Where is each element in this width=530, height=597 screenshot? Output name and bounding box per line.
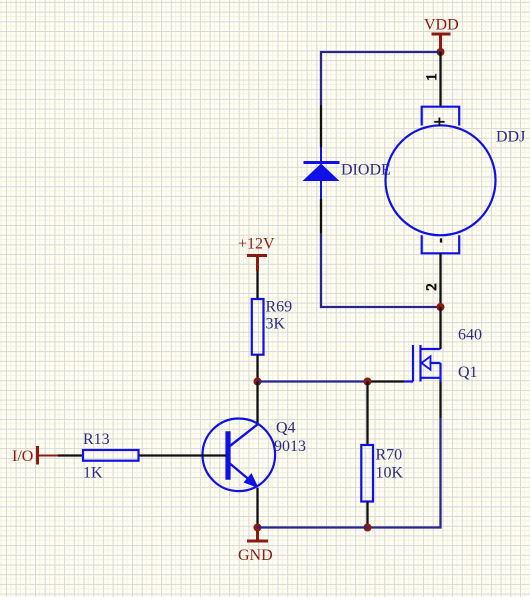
junction gate node R70 (364, 378, 372, 386)
power +12V (238, 236, 275, 272)
svg-text:3K: 3K (266, 316, 286, 333)
wire source pin (black) (439, 382, 441, 419)
diode DIODE (303, 147, 340, 199)
wire base pin (black) (139, 454, 227, 456)
ground GND (238, 528, 273, 565)
svg-text:DDJ: DDJ (496, 129, 525, 146)
transistor Q4 (203, 419, 276, 492)
wire gate pin (black) (368, 380, 405, 382)
resistor R69 (252, 299, 264, 355)
wire VDD to diode top (321, 52, 441, 105)
wire motor pin 2 (black) (439, 253, 441, 307)
svg-text:VDD: VDD (424, 17, 459, 34)
junction VDD node (437, 48, 445, 56)
svg-text:I/O: I/O (12, 448, 33, 465)
wire R70 top pin (black) (366, 382, 368, 446)
svg-text:10K: 10K (376, 465, 404, 482)
svg-text:Q4: Q4 (276, 420, 296, 437)
wire drain pin (black) (439, 307, 441, 349)
port I/O (12, 446, 58, 465)
wire source to bottom rail (368, 418, 441, 528)
svg-text:1K: 1K (83, 465, 103, 482)
resistor R70 (361, 445, 373, 502)
wire R69 bottom pin (black) (256, 355, 258, 382)
wire collector pin (black) (256, 382, 258, 425)
wire gate net (258, 380, 368, 382)
resistor R13 (83, 450, 139, 461)
junction gate node left (254, 378, 262, 386)
svg-text:R69: R69 (266, 299, 293, 316)
svg-text:DIODE: DIODE (341, 162, 391, 179)
transistor Q1 MOSFET (404, 345, 441, 382)
svg-text:R70: R70 (376, 447, 403, 464)
svg-text:GND: GND (238, 547, 273, 564)
wire diode anode pin (black) (320, 105, 322, 147)
junction drain node (437, 303, 445, 311)
wire diode cathode pin (black) (320, 199, 322, 233)
junction bottom rail R70 (364, 524, 372, 532)
svg-text:640: 640 (458, 327, 482, 344)
svg-text:9013: 9013 (274, 438, 306, 455)
wire motor pin 1 (black) (439, 52, 441, 107)
svg-text:Q1: Q1 (458, 364, 478, 381)
svg-text:1: 1 (424, 73, 440, 81)
power VDD (424, 17, 459, 53)
svg-text:+12V: +12V (238, 236, 275, 253)
wire I/O to R13 (black) (58, 454, 83, 456)
svg-text:R13: R13 (83, 431, 110, 448)
wire R69 top pin (black) (256, 271, 258, 299)
motor DDJ (386, 107, 496, 254)
wire emitter pin (black) (256, 488, 258, 528)
svg-text:2: 2 (424, 283, 440, 291)
wire R70 bottom pin (black) (366, 502, 368, 528)
junction bottom rail GND (254, 524, 262, 532)
wire diode bottom to drain node (321, 233, 441, 307)
wire bottom rail (258, 526, 368, 528)
